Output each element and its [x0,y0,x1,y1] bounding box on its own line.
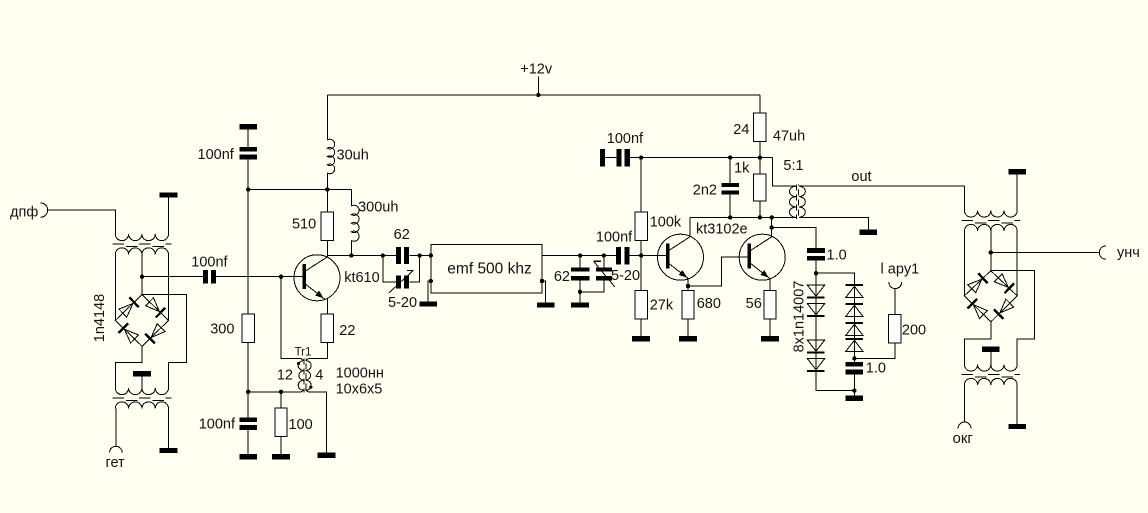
transformer T5 primary [790,186,796,217]
wire ground to T2 tap [141,377,143,388]
transformer Tr1 secondary winding 4 [306,361,312,391]
wire R5 to ground [280,437,282,454]
ground detector [846,396,864,401]
wire emf left ground stub [428,281,431,301]
svg-text:24: 24 [733,122,749,138]
svg-text:out: out [851,169,871,185]
resistor R8 24 / choke 47uh [754,113,766,142]
wire node to R5 [280,392,282,408]
transformer T2 primary [115,388,168,395]
ground T2 tap [133,371,151,376]
capacitor C4 62 [396,247,401,264]
wire VT2 emitter to VT3 base [688,257,748,286]
wire collector to C62 [327,255,396,257]
phase dot Tr1 secondary [309,386,312,389]
trimmer arrow tick C7 [594,260,601,262]
trimmer arrow C7 [594,261,615,287]
wire +12v rail [327,94,760,96]
resistor R4 22 [321,314,333,343]
node A detector [814,271,818,275]
wire C8 to Q1 base [630,255,666,257]
wire connector to R12 [894,289,896,315]
wire T1 sec left to ring [114,255,116,321]
transistor VT1 kt610 [294,255,340,301]
resistor R7 27k [635,291,647,320]
wire C12 to ground [853,375,855,396]
svg-text:1k: 1k [734,161,750,177]
ground below R5 [272,454,290,459]
connector l apy1 [889,282,902,288]
wire T3 sec left to ring [963,231,965,296]
trimmer arrow tick C5 [407,270,414,272]
wire L1 to node [326,173,328,190]
svg-text:12: 12 [277,368,293,384]
wire D5 D6 [853,298,855,303]
svg-text:1.0: 1.0 [866,361,886,377]
node shunt C6 [578,253,582,257]
svg-text:27k: 27k [650,298,674,314]
transformer Tr1 primary winding 12 [298,361,304,391]
wire T1 sec right to ring [168,255,170,321]
wire rail to T5 primary top [773,158,796,187]
wire ring top to T4 right [991,271,1035,365]
wire gnd to C1 [247,129,249,147]
svg-text:100nf: 100nf [596,230,633,246]
ground top-left [239,124,257,129]
svg-text:5-20: 5-20 [611,268,640,284]
transformer T5 secondary [799,186,805,217]
node VT2 emitter [686,284,690,288]
node collector supply junction [325,187,329,191]
wire R12 to node B [854,343,894,358]
wire T2 right to ground [168,409,170,448]
svg-text:дпф: дпф [10,205,38,221]
ground T1 primary [160,192,178,197]
svg-text:10x6x5: 10x6x5 [336,381,383,397]
svg-text:510: 510 [292,217,316,233]
transformer T2 secondary [115,402,168,409]
capacitor C1 100nf [239,147,257,152]
ground T2 secondary [160,448,178,453]
transformer T3 primary [964,211,1017,218]
node rail 1k 47uh [758,155,762,159]
wire C4 to emf box [409,255,431,257]
wire emf out [542,255,616,257]
wire branch to trimmer C5 [383,256,396,283]
connector dpf [41,203,48,217]
node after C4 [417,253,421,257]
wire node down to R2 300 [247,190,249,314]
svg-text:1n4148: 1n4148 [92,294,108,342]
svg-text:680: 680 [697,296,721,312]
trimmer arrow C5 [389,271,414,294]
wire T5 secondary bottom to ground [799,217,869,229]
ground below R11 [761,336,779,341]
capacitor C6 62 shunt [571,267,590,271]
diode VD5 1n4148 [968,279,982,293]
diode D2 1n14007 [807,303,825,314]
diode D8 1n14007 [846,338,864,340]
svg-text:100k: 100k [650,215,682,231]
transformer T1 primary [115,234,168,241]
transformer T3 secondary [964,224,1017,231]
transistor VT3 kt3102e [739,234,785,280]
capacitor C3 100nf series [203,270,208,284]
wire ground to T4 tap [990,352,992,365]
wire node A to right chain [816,273,854,284]
diode VD7 1n4148 [1000,299,1014,313]
wire out to T3 [963,186,965,210]
ground T5 secondary [860,230,878,235]
wire VT2 collector [689,217,691,236]
node rail R6 [639,155,643,159]
svg-text:4: 4 [315,368,323,384]
svg-text:100nf: 100nf [191,255,228,271]
wire T3 tap to ring top [990,231,992,271]
capacitor C5 trimmer 5-20 [396,276,401,289]
diode VD3 1n4148 [151,324,165,338]
diode VD6 1n4148 [994,274,1008,288]
wire R9 to collector wire [759,201,761,218]
wire C6 to ground [579,281,581,303]
node emf in [429,253,433,257]
svg-text:30uh: 30uh [337,148,369,164]
transformer T1 secondary [115,248,168,255]
wire T1 tap to ring top [141,255,143,295]
transformer T4 primary [964,365,1017,372]
svg-text:100nf: 100nf [607,131,644,147]
inductor L1 30uh [327,139,334,174]
wire dpf to T1 [48,210,116,234]
svg-text:гет: гет [106,455,126,471]
wire 100nf rail [630,157,773,159]
node ground junction [852,388,856,392]
ground below C2 [239,454,257,459]
resistor R3 510 [321,212,333,241]
wire ring tap to C3 [142,276,203,278]
wire node to C7 [603,256,605,268]
node bottom-left junction [246,390,250,394]
core Tr1 [303,359,305,393]
wire T3 sec right to ring [1016,231,1018,296]
connector unch [1099,246,1106,259]
node +12v rail junction [536,93,540,97]
wire +12v tick [537,77,539,96]
wire +12v to R8 [759,95,761,113]
node L2 collector junction [349,253,353,257]
ground T4 tap [982,347,1000,352]
diode VD8 1n4148 [973,305,987,319]
wire emitter to R4 [326,298,328,314]
core T4 [962,374,1020,376]
svg-text:100nf: 100nf [199,417,236,433]
ground emf left [419,301,437,306]
svg-text:1.0: 1.0 [827,248,847,264]
node emf gnd right [540,279,544,283]
wire unch [991,252,1099,254]
wire R3 to collector [326,241,328,258]
node rail 2n2 [728,155,732,159]
ground C9 left [600,149,605,167]
wire L2 to collector wire [350,241,352,256]
core T2 [113,397,172,399]
wire T4 right to ground [1016,385,1018,424]
svg-text:5-20: 5-20 [388,295,417,311]
core T5 [795,185,797,220]
resistor R2 300 [242,314,254,343]
wire R10 to ground [687,319,689,336]
phase dot Tr1 primary [297,362,300,365]
ground emf right [537,302,555,307]
wire node to R7 27k [640,256,642,291]
wire Tr1 primary bottom to node [248,390,304,392]
ring mixer VD1-VD4 diamond [115,295,168,347]
wire VT3 collector [771,217,773,236]
node C6 C7 ground junction [578,290,582,294]
svg-text:300uh: 300uh [358,200,398,216]
wire ground to T3 primary [1016,174,1018,210]
node 2n2 bottom [728,215,732,219]
diode D7 1n14007 [846,322,864,324]
svg-text:kt610: kt610 [344,270,379,286]
node R5 100 junction [279,390,283,394]
wire node up to R6 100k [640,240,642,255]
node base bias junction [639,253,643,257]
wire rail to C10 2n2 [729,158,731,183]
wire VT3 emitter to R11 [769,279,771,291]
wire D2 D3 [815,317,817,340]
capacitor C2 100nf bottom [239,417,257,422]
wire node to C6 [579,256,581,268]
wire T2 to get [115,409,117,447]
wire T4 to okg [963,385,965,422]
svg-text:100: 100 [289,417,313,433]
diode VD4 1n4148 [124,329,138,343]
filter Z1 emf 500 khz box [431,245,542,293]
wire R6 to 100nf rail [640,157,642,212]
svg-text:300: 300 [210,322,234,338]
node before C62 [381,253,385,257]
node B [852,356,856,360]
core T1 [113,243,172,245]
transformer T4 secondary [964,378,1017,385]
node tap takeoff [140,275,144,279]
svg-text:окг: окг [953,430,974,447]
resistor R11 56 [764,291,776,320]
svg-text:l apy1: l apy1 [881,262,920,278]
wire C3 to base [216,276,302,278]
svg-text:8x1n14007: 8x1n14007 [791,281,807,353]
capacitor C7 trimmer 5-20 shunt [596,267,612,271]
transistor VT2 kt3102e [658,234,704,280]
svg-text:emf 500 khz: emf 500 khz [447,261,531,278]
wire rail to R9 1k [759,158,761,174]
wire node to R3 [326,190,328,212]
ground below R10 [679,336,697,341]
diode VD1 1n4148 [119,303,133,317]
wire R8 to rail [759,142,761,158]
wire node A to left chain [815,273,817,285]
wire R2 to bottom node [247,343,249,392]
svg-text:200: 200 [902,323,926,339]
wire VT2 emitter to R10 [687,279,689,291]
wire C11 to node A [815,261,817,274]
node VT3 collector top [770,215,774,219]
node emf gnd left [429,279,433,283]
svg-text:62: 62 [394,227,410,243]
resistor R10 680 [682,291,694,320]
diode D5 1n14007 [846,284,864,286]
resistor R5 100 [275,408,287,437]
wire VT2 collector rail [690,216,796,218]
diode VD2 1n4148 [146,298,160,312]
node base feedback junction [279,275,283,279]
diode D6 1n14007 [846,303,864,305]
resistor R9 1k [754,174,766,201]
wire gnd to C9 [605,157,616,159]
svg-text:1000нн: 1000нн [336,365,384,381]
wire R4 to Tr1 secondary top [309,343,328,359]
capacitor C9 100nf [616,149,621,167]
diode D4 1n14007 [807,358,825,369]
svg-text:+12v: +12v [520,62,553,78]
wire ring bottom to T2 left [115,346,142,388]
svg-text:22: 22 [339,323,355,339]
wire left diode chain spine [815,285,817,373]
wire right diode chain spine [853,286,855,358]
wire C7 to ground junction [580,281,604,292]
wire D1 D2 [815,299,817,304]
ground below Tr1 [318,453,336,458]
wire supply node horizontal [248,189,351,191]
wire node to L2 [350,190,352,207]
capacitor C12 1.0 [846,362,864,367]
wire D7 D8 [853,336,855,338]
wire base node to Tr1 primary top [281,277,304,361]
wire emf right ground stub [542,281,546,302]
capacitor C8 100nf series [616,247,621,264]
node 1k bottom [758,215,762,219]
wire ring bottom to T4 left [964,322,990,365]
wire D6 D7 [853,317,855,322]
svg-text:kt3102e: kt3102e [696,222,748,238]
wire C1 to node [247,160,249,190]
svg-text:62: 62 [554,269,570,285]
svg-text:5:1: 5:1 [783,158,803,174]
svg-text:56: 56 [746,296,762,312]
wire trimmer to node [409,256,419,283]
node shunt C7 [602,253,606,257]
node unch takeoff [989,250,993,254]
wire C10 to collector wire [729,195,731,218]
diode D3 1n14007 [807,340,825,351]
svg-text:2n2: 2n2 [693,183,717,199]
inductor L2 300uh [351,205,359,241]
wire Tr1 secondary bottom to ground [306,390,327,452]
connector get [110,446,123,452]
connector okg [958,422,971,428]
capacitor C11 1.0 [807,248,825,253]
wire node to C2 [247,392,249,418]
wire Tr1 secondary top curl [306,359,309,361]
resistor R6 100k [635,212,647,241]
wire out [799,185,965,187]
wire branch to C11 [772,228,816,249]
node decoupling junction [246,187,250,191]
wire C2 to ground [247,430,249,454]
diode D1 1n14007 [807,285,825,296]
node detector branch [770,225,774,229]
wire rail to L1 [326,95,328,140]
resistor R12 200 [889,314,901,343]
core T3 [962,220,1020,222]
svg-text:100nf: 100nf [198,147,235,163]
ground T3 primary [1008,169,1026,174]
ground below R7 [632,336,650,341]
ground below C6 [571,302,589,307]
svg-text:Tr1: Tr1 [295,347,312,359]
wire D8 to node B [853,352,855,362]
wire ground to T1 primary [168,198,170,234]
wire R7 to ground [640,319,642,336]
svg-text:47uh: 47uh [773,129,805,145]
wire R11 to ground [769,319,771,336]
ring mixer VD5-VD8 diamond [964,271,1017,322]
wire D3 D4 [815,354,817,359]
ground T4 secondary [1008,424,1026,429]
svg-text:унч: унч [1117,245,1140,261]
capacitor C10 2n2 [722,183,740,187]
wire D4 to ground node [816,372,854,391]
wire ring top to T2 right [142,295,186,388]
